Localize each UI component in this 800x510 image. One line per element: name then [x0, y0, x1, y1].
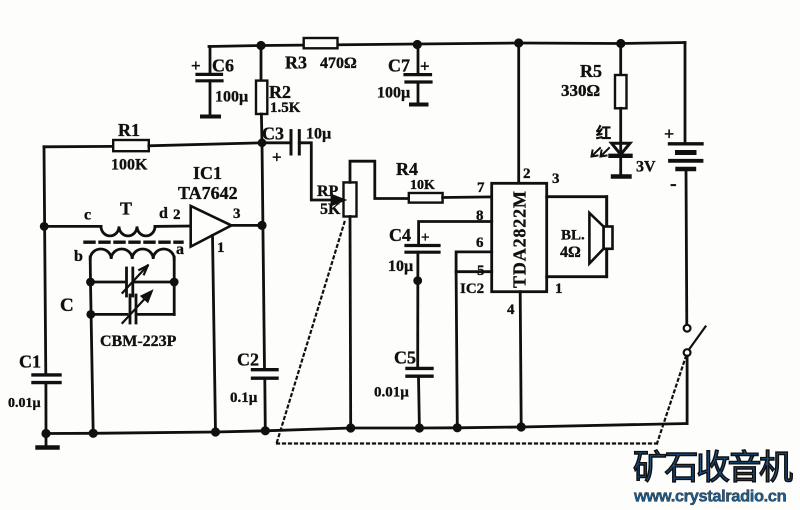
svg-text:C6: C6: [212, 56, 234, 76]
svg-text:10µ: 10µ: [388, 258, 413, 275]
label C5: [374, 348, 416, 401]
svg-text:7: 7: [477, 180, 485, 196]
label C1: [8, 352, 41, 412]
watermark url: [633, 488, 787, 506]
LED D1 red: [611, 143, 631, 177]
junction varcap rail1 left: [86, 278, 95, 287]
pin 1 label: [555, 281, 563, 297]
junction varcap rail2 left: [86, 310, 95, 319]
svg-text:470Ω: 470Ω: [320, 55, 357, 72]
transformer T secondary winding: [90, 249, 174, 282]
svg-text:BL.: BL.: [561, 228, 585, 244]
label CBM-223P: [100, 333, 177, 350]
svg-text:3V: 3V: [636, 159, 656, 176]
svg-text:10µ: 10µ: [306, 126, 331, 143]
svg-text:100µ: 100µ: [377, 85, 410, 102]
svg-text:C4: C4: [389, 225, 411, 245]
pin 8 label: [476, 208, 484, 224]
junction bus C1 ground: [41, 429, 50, 438]
svg-text:c: c: [84, 207, 91, 224]
junction bus RP: [346, 423, 355, 432]
transformer core dashed: [85, 240, 182, 243]
label C4: [388, 225, 430, 275]
svg-text:IC2: IC2: [460, 281, 484, 297]
wire pin6 pin5 tie: [456, 252, 492, 272]
svg-text:0.01µ: 0.01µ: [374, 385, 409, 401]
junction R5 top bus: [616, 39, 625, 48]
label R2: [269, 82, 301, 116]
junction bus C2: [261, 426, 270, 435]
svg-text:C7: C7: [388, 56, 410, 76]
watermark logo: [633, 449, 793, 487]
label IC2: [460, 281, 484, 297]
capacitor C6: [197, 74, 222, 116]
pin 5 label: [477, 263, 485, 279]
label C3: [262, 124, 331, 167]
label red LED: [596, 124, 656, 176]
svg-text:1: 1: [217, 240, 225, 256]
junction node pin3 output: [257, 221, 266, 230]
svg-text:CBM-223P: CBM-223P: [100, 333, 177, 350]
svg-text:4: 4: [507, 302, 515, 318]
capacitor C3: [262, 131, 331, 200]
LED emission arrows: [592, 148, 610, 157]
svg-text:T: T: [120, 199, 132, 219]
svg-text:10K: 10K: [410, 178, 435, 193]
svg-text:6: 6: [476, 235, 484, 251]
dotted gang coupling to switch: [657, 358, 686, 444]
capacitor C5: [407, 368, 432, 428]
label RP: [317, 183, 341, 218]
wire pin8 to C4: [419, 222, 492, 246]
svg-text:1.5K: 1.5K: [270, 100, 301, 116]
svg-text:红: 红: [596, 124, 611, 142]
resistor R5: [615, 44, 627, 143]
label R4: [396, 159, 435, 193]
wire mid vertical node to C2: [262, 143, 265, 370]
svg-text:R1: R1: [118, 120, 140, 140]
wire pin3 to speaker: [547, 197, 607, 226]
svg-text:RP: RP: [317, 183, 339, 200]
svg-text:+: +: [272, 148, 282, 167]
varcap section 2: [91, 282, 175, 323]
svg-text:1: 1: [555, 281, 563, 297]
pin 6 label: [476, 235, 484, 251]
svg-text:R5: R5: [580, 61, 602, 81]
svg-text:R4: R4: [396, 159, 418, 179]
label secondary b a: [74, 241, 184, 265]
svg-text:R2: R2: [269, 82, 291, 102]
pin 7 label: [477, 180, 485, 196]
label R5: [561, 61, 602, 100]
label T winding c d: [84, 199, 181, 224]
svg-text:+: +: [420, 57, 430, 76]
battery 3V: [670, 43, 703, 326]
junction pin2 top bus: [514, 38, 523, 47]
wire top supply bus: [209, 43, 685, 47]
resistor R1: [44, 140, 262, 151]
wire C6 drop from bus corner: [209, 47, 212, 75]
junction bus C5: [415, 423, 424, 432]
wire left vertical: [44, 147, 46, 375]
svg-text:C5: C5: [394, 348, 416, 368]
svg-text:0.01µ: 0.01µ: [8, 396, 41, 411]
label C2: [230, 350, 259, 407]
svg-text:矿石收音机: 矿石收音机: [633, 449, 793, 487]
svg-text:d: d: [159, 205, 168, 222]
capacitor C7: [405, 44, 431, 105]
switch S1: [684, 325, 706, 424]
junction bus pin5: [453, 423, 462, 432]
svg-text:www.crystalradio.cn: www.crystalradio.cn: [633, 488, 787, 506]
junction bus pin1 IC1: [211, 427, 220, 436]
wire varcap left leg: [91, 282, 94, 433]
svg-text:+: +: [191, 56, 201, 75]
label C varcap: [60, 295, 74, 316]
junction R2 top bus: [256, 41, 265, 50]
junction varcap rail1 right node a: [170, 278, 179, 287]
resistor R4: [409, 193, 492, 203]
svg-text:C1: C1: [19, 352, 41, 372]
svg-text:+: +: [664, 124, 674, 144]
junction node T primary left: [40, 222, 49, 231]
wire pin1 to speaker: [547, 249, 607, 277]
svg-text:3: 3: [552, 171, 560, 187]
label C7: [377, 56, 430, 102]
varcap section 1: [91, 266, 175, 297]
svg-text:IC1: IC1: [193, 163, 222, 183]
wire pin4 to bus: [520, 292, 521, 427]
svg-text:0.1µ: 0.1µ: [230, 390, 258, 406]
capacitor C1: [33, 375, 60, 434]
svg-text:C2: C2: [237, 350, 259, 370]
svg-text:2: 2: [173, 207, 181, 223]
pin 2 label: [523, 166, 531, 182]
svg-text:5K: 5K: [320, 201, 341, 218]
op-amp IC1 TA7642: [191, 206, 262, 432]
resistor R2: [256, 46, 267, 143]
label TDA2822M: [510, 191, 530, 288]
dotted gang coupling RP to bus: [277, 222, 345, 442]
dotted gang coupling bus run: [277, 442, 657, 444]
wire pin2 drop to IC2: [517, 43, 520, 183]
svg-text:+: +: [421, 230, 430, 246]
pin 3 label: [552, 171, 560, 187]
svg-text:b: b: [74, 248, 83, 265]
svg-text:TDA2822M: TDA2822M: [510, 191, 530, 288]
svg-text:100K: 100K: [111, 157, 148, 174]
speaker BL: [589, 197, 612, 277]
potentiometer RP: [332, 161, 409, 428]
junction bus pin4: [517, 422, 526, 431]
ground: [38, 434, 58, 448]
label R1: [111, 120, 148, 174]
label BL 4ohm: [560, 228, 585, 262]
label IC1: [178, 163, 241, 256]
resistor R3: [304, 38, 338, 48]
label R3: [285, 53, 357, 73]
pin 4 label: [507, 302, 515, 318]
svg-text:100µ: 100µ: [215, 89, 248, 106]
svg-text:TA7642: TA7642: [178, 183, 238, 203]
svg-text:-: -: [670, 173, 677, 195]
wire pin5 node to bus: [456, 272, 457, 428]
junction C7 top bus: [413, 40, 422, 49]
junction C4 C5 node: [413, 276, 422, 285]
IC U2 TDA2822M: [492, 183, 547, 291]
svg-text:4Ω: 4Ω: [560, 244, 581, 261]
wire bottom ground bus: [46, 424, 687, 434]
svg-text:C: C: [60, 295, 74, 316]
svg-text:330Ω: 330Ω: [561, 81, 600, 100]
capacitor C2: [253, 370, 278, 431]
transformer T primary winding: [44, 226, 191, 236]
svg-text:3: 3: [233, 206, 241, 222]
svg-text:a: a: [176, 241, 184, 258]
junction bus varcap leg: [89, 429, 98, 438]
junction node R1 R2 C3: [258, 138, 267, 147]
label C6: [191, 56, 248, 106]
svg-text:2: 2: [523, 166, 531, 182]
svg-text:R3: R3: [285, 53, 307, 73]
capacitor C4: [406, 246, 439, 369]
label battery polarity: [664, 124, 677, 195]
